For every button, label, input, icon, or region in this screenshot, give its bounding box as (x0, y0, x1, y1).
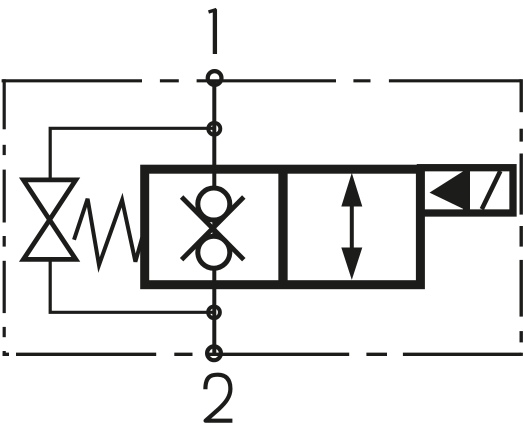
valve body center divider (278, 169, 287, 285)
solenoid slash (482, 171, 501, 209)
relief valve poppet (bowtie lower triangle) (23, 220, 75, 260)
solenoid triangle (430, 171, 465, 210)
enclosure dash-dot border left (3, 79, 6, 356)
port label 2 (205, 375, 232, 421)
solenoid divider (463, 171, 470, 210)
valve body outer box (145, 169, 421, 285)
check valve cross line 1 (182, 197, 244, 260)
relief valve poppet (bowtie upper triangle) (23, 180, 75, 220)
arrow head down (341, 248, 362, 280)
arrow head up (341, 173, 362, 207)
wire: pilot line upper (to relief valve) (50, 128, 214, 180)
node: junction circle lower (208, 306, 220, 318)
check valve circle upper (198, 188, 230, 220)
wire: main vertical line port 1 to port 2 (212, 80, 216, 354)
port 2 circle (207, 346, 221, 360)
check valve cross line 2 (182, 197, 244, 260)
arrow shaft (350, 203, 354, 251)
wire: pilot line lower (from relief valve) (50, 259, 214, 312)
enclosure dash-dot border top (2, 79, 522, 82)
port label 1 (digit stem) (213, 9, 217, 54)
enclosure dash-dot border bottom (3, 353, 522, 356)
node: junction circle upper (208, 123, 220, 135)
check valve circle lower (198, 236, 230, 268)
solenoid box (420, 168, 513, 213)
port label 1 (digit flag) (209, 10, 217, 13)
enclosure dash-dot border right (520, 79, 523, 356)
spring (74, 199, 143, 265)
port 1 circle (208, 71, 222, 85)
